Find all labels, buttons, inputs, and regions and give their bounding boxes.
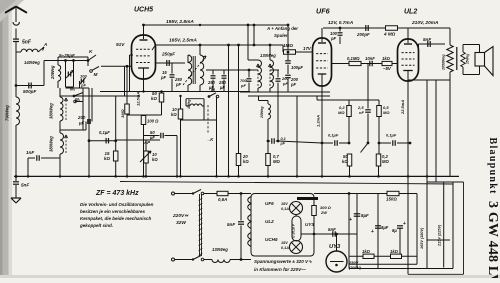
svg-text:0,1A: 0,1A	[281, 246, 289, 250]
svg-text:MΩ: MΩ	[273, 159, 280, 164]
svg-text:165V (180V): 165V (180V)	[420, 227, 424, 249]
svg-text:M: M	[94, 72, 98, 77]
svg-text:kΩ: kΩ	[152, 157, 158, 162]
svg-text:kΩ: kΩ	[243, 159, 249, 164]
svg-text:140Weg: 140Weg	[24, 60, 40, 65]
svg-text:MΩ: MΩ	[338, 110, 345, 115]
svg-text:µF: µF	[280, 142, 286, 146]
svg-text:in Klammern für 220V—: in Klammern für 220V—	[254, 267, 306, 272]
svg-text:pF: pF	[160, 75, 167, 80]
svg-text:besitzen je ein verschiebbares: besitzen je ein verschiebbares	[80, 209, 146, 214]
svg-text:nF: nF	[359, 110, 364, 115]
svg-text:1kΩ: 1kΩ	[382, 56, 391, 61]
svg-text:8µF: 8µF	[361, 213, 369, 218]
svg-text:12V, 0.7mA: 12V, 0.7mA	[328, 20, 354, 26]
svg-text:pF: pF	[80, 83, 86, 88]
svg-text:M₁: M₁	[70, 87, 76, 92]
svg-text:UCH5: UCH5	[134, 7, 153, 14]
svg-text:5nF: 5nF	[423, 37, 431, 42]
svg-text:1Weg: 1Weg	[187, 99, 191, 109]
svg-text:UL2: UL2	[404, 9, 417, 16]
svg-text:→K: →K	[206, 137, 214, 142]
svg-text:8µ: 8µ	[392, 228, 397, 233]
svg-text:1,2mA: 1,2mA	[316, 115, 321, 127]
svg-text:Blaupunkt: Blaupunkt	[487, 138, 498, 195]
svg-text:0,1MΩ: 0,1MΩ	[347, 56, 360, 61]
svg-text:5nF: 5nF	[21, 183, 29, 188]
svg-text:5nF: 5nF	[22, 40, 32, 46]
svg-text:UL2: UL2	[265, 219, 274, 224]
svg-text:1MΩ: 1MΩ	[283, 43, 293, 48]
svg-text:380Weg: 380Weg	[49, 103, 54, 119]
svg-text:Spannungswerte ± 320 V∿: Spannungswerte ± 320 V∿	[254, 259, 312, 264]
svg-text:0,1A: 0,1A	[281, 207, 289, 211]
svg-text:UF6: UF6	[265, 201, 274, 206]
svg-text:210V, 20mA: 210V, 20mA	[411, 20, 439, 26]
svg-text:250µF: 250µF	[161, 52, 175, 57]
svg-text:15Weg: 15Weg	[466, 54, 470, 64]
svg-text:0,1: 0,1	[281, 137, 286, 141]
svg-text:5nF: 5nF	[227, 222, 235, 227]
svg-text:pF: pF	[175, 82, 182, 87]
svg-text:A: A	[43, 42, 47, 47]
svg-text:2050Weg: 2050Weg	[442, 54, 446, 71]
svg-text:790Weg: 790Weg	[5, 105, 10, 121]
svg-text:380Weg: 380Weg	[49, 136, 54, 152]
svg-text:MΩ: MΩ	[382, 159, 389, 164]
svg-text:18V: 18V	[281, 241, 288, 245]
svg-text:gekoppelt sind.: gekoppelt sind.	[79, 223, 113, 228]
svg-text:1kΩ: 1kΩ	[362, 249, 371, 254]
svg-text:200pF: 200pF	[356, 32, 370, 37]
svg-text:32W: 32W	[176, 220, 186, 226]
svg-text:220V≃: 220V≃	[172, 213, 189, 219]
svg-text:+: +	[403, 221, 406, 227]
svg-text:91V: 91V	[116, 42, 125, 47]
svg-text:20Weg: 20Weg	[260, 106, 264, 119]
svg-text:100 Ω: 100 Ω	[147, 119, 159, 124]
svg-text:UY3: UY3	[305, 222, 314, 227]
svg-text:10nF: 10nF	[365, 56, 375, 61]
svg-text:pF: pF	[330, 36, 337, 41]
svg-text:200: 200	[77, 115, 86, 120]
svg-text:500pF: 500pF	[23, 89, 36, 94]
svg-text:130Weg: 130Weg	[260, 53, 276, 58]
svg-text:4 MΩ: 4 MΩ	[383, 32, 396, 37]
svg-text:0,1µF: 0,1µF	[386, 133, 397, 138]
svg-text:195V, 2.8mA: 195V, 2.8mA	[166, 19, 194, 25]
svg-text:20Weg: 20Weg	[50, 65, 55, 80]
svg-text:µF: µF	[219, 85, 225, 90]
svg-text:µF: µF	[78, 121, 85, 126]
svg-text:130Weg: 130Weg	[212, 247, 228, 252]
svg-text:1nF: 1nF	[26, 150, 34, 155]
svg-text:+: +	[371, 229, 374, 235]
svg-text:pF: pF	[290, 82, 297, 87]
svg-text:100: 100	[80, 74, 87, 79]
svg-text:pF: pF	[240, 83, 246, 88]
svg-text:kΩ: kΩ	[151, 96, 157, 101]
svg-text:kΩ: kΩ	[104, 156, 110, 161]
svg-text:Spulen: Spulen	[274, 33, 289, 38]
svg-text:2W: 2W	[320, 210, 328, 215]
svg-text:1kΩ: 1kΩ	[390, 249, 399, 254]
svg-text:UCH5: UCH5	[265, 237, 278, 242]
svg-text:17V: 17V	[303, 46, 312, 51]
svg-text:kΩ: kΩ	[171, 112, 177, 117]
svg-text:3 GW 448 LV: 3 GW 448 LV	[485, 201, 500, 278]
svg-text:100µF: 100µF	[291, 65, 303, 70]
svg-text:0,6A: 0,6A	[218, 197, 227, 202]
svg-text:18V: 18V	[281, 202, 288, 206]
svg-text:0,1µF: 0,1µF	[328, 133, 339, 138]
svg-text:AP: AP	[143, 140, 150, 145]
svg-text:Kernpaket, die beide mechanisc: Kernpaket, die beide mechanisch	[80, 216, 152, 221]
svg-text:M: M	[211, 88, 215, 93]
svg-text:A + Anfang der: A + Anfang der	[266, 26, 298, 31]
svg-text:5nF: 5nF	[328, 227, 336, 232]
svg-text:150Ω: 150Ω	[386, 197, 397, 202]
svg-text:ZF = 473 kHz: ZF = 473 kHz	[95, 190, 139, 197]
svg-text:–5V: –5V	[383, 66, 392, 71]
svg-text:kΩ: kΩ	[342, 159, 348, 164]
svg-text:U 2618 P: U 2618 P	[292, 223, 296, 238]
svg-text:22.5mA: 22.5mA	[400, 100, 405, 115]
svg-text:0,1µF: 0,1µF	[99, 130, 110, 135]
svg-text:165V, 2.5mA: 165V, 2.5mA	[169, 38, 197, 44]
svg-text:pF: pF	[282, 81, 288, 86]
svg-text:Die Vorkreis- und Oszillatorsp: Die Vorkreis- und Oszillatorspulen	[80, 202, 154, 207]
svg-text:8µF: 8µF	[381, 225, 389, 230]
svg-text:(300V): (300V)	[349, 265, 362, 270]
svg-text:215V (225V): 215V (225V)	[438, 224, 442, 247]
svg-text:UF6: UF6	[316, 7, 331, 16]
svg-text:MΩ: MΩ	[383, 110, 390, 115]
svg-text:12,5mA: 12,5mA	[136, 92, 141, 106]
svg-text:UY3: UY3	[329, 244, 341, 250]
